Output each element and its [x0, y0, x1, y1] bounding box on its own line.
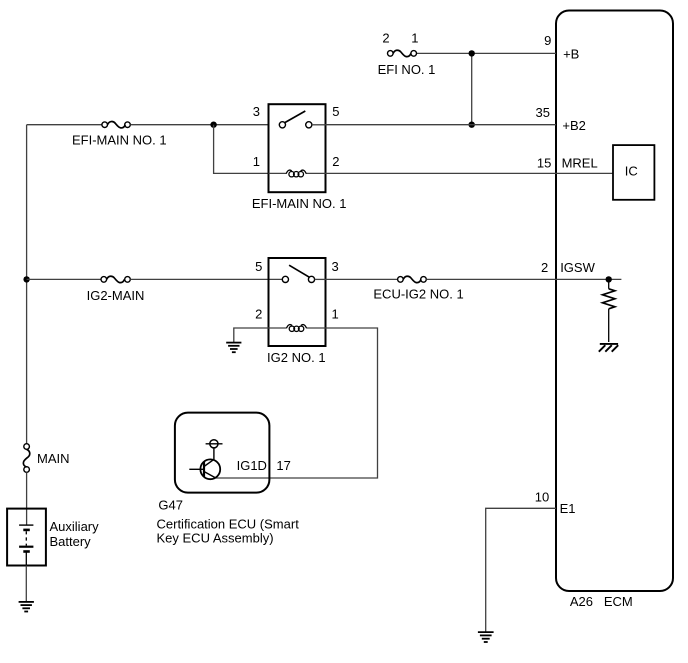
svg-text:+B2: +B2: [562, 118, 586, 133]
wire relay1 pin2 to MREL/IC: [326, 172, 614, 174]
fuse ECU-IG2 NO. 1: [398, 276, 427, 282]
svg-text:E1: E1: [560, 501, 576, 516]
node junction on +B wire: [469, 50, 475, 56]
svg-text:MREL: MREL: [562, 155, 598, 170]
svg-text:IC: IC: [625, 163, 638, 178]
svg-text:Battery: Battery: [50, 534, 92, 549]
svg-text:3: 3: [332, 259, 339, 274]
wire relay2 pin2 to ground: [234, 328, 269, 342]
svg-text:2: 2: [382, 31, 389, 46]
svg-text:35: 35: [536, 105, 550, 120]
svg-text:9: 9: [544, 33, 551, 48]
wire relay2 pin3 to fuse ECU-IG2: [326, 278, 398, 280]
svg-text:IG2-MAIN: IG2-MAIN: [87, 288, 145, 303]
svg-text:1: 1: [411, 31, 418, 46]
svg-text:17: 17: [276, 458, 290, 473]
wire relay2 pin1 to G47 pin 17: [216, 328, 378, 478]
svg-text:G47: G47: [158, 498, 183, 513]
transistor Q (in G47): [189, 440, 222, 480]
wire +B horizontal: [417, 52, 556, 54]
wire left bus vertical: [26, 125, 28, 444]
wire E1 to ground: [486, 508, 556, 632]
svg-text:1: 1: [253, 154, 260, 169]
svg-text:Auxiliary: Auxiliary: [50, 519, 100, 534]
battery G1 Auxiliary Battery box: [7, 509, 46, 566]
fuse EFI-MAIN NO. 1: [102, 122, 130, 128]
svg-text:A26 ECM: A26 ECM: [570, 594, 633, 609]
svg-text:5: 5: [255, 259, 262, 274]
svg-text:EFI NO. 1: EFI NO. 1: [378, 62, 436, 77]
svg-text:Certification ECU (Smart: Certification ECU (Smart: [157, 516, 300, 531]
wire fuse IG2-MAIN to relay2 pin5: [130, 278, 282, 280]
svg-text:5: 5: [332, 104, 339, 119]
wire fuse to relay pin 3: [130, 124, 268, 126]
wire IG2-MAIN line left: [27, 278, 101, 280]
ground (chassis) below resistor: [599, 344, 618, 352]
svg-text:2: 2: [255, 306, 262, 321]
node junction dot on pin3 wire: [210, 122, 216, 128]
svg-text:IG1D: IG1D: [237, 458, 267, 473]
wire EFI-MAIN NO.1 fuse line left: [27, 124, 102, 126]
ECM U-A26 box: [556, 11, 673, 592]
fuse EFI NO. 1: [388, 50, 417, 56]
wire IGSW internal stub: [556, 278, 621, 280]
node junction on left bus (IG2-MAIN): [23, 276, 29, 282]
wire junction vertical +B/+B2: [471, 53, 473, 124]
svg-text:3: 3: [253, 104, 260, 119]
svg-text:15: 15: [537, 155, 551, 170]
svg-text:EFI-MAIN NO. 1: EFI-MAIN NO. 1: [252, 196, 347, 211]
wire fuse ECU-IG2 to IGSW: [426, 278, 556, 280]
svg-text:10: 10: [535, 490, 549, 505]
IC box U1: [613, 145, 654, 200]
ground (earth) at E1: [478, 632, 494, 642]
ground (earth) below battery: [19, 602, 34, 612]
fuse IG2-MAIN: [101, 276, 130, 282]
svg-text:2: 2: [541, 260, 548, 275]
wire branch down to relay coil pin 1: [214, 125, 269, 174]
fusible link MAIN: [23, 444, 29, 473]
wire MAIN link to battery: [26, 472, 28, 525]
svg-text:MAIN: MAIN: [37, 451, 70, 466]
wire battery to ground: [25, 566, 27, 602]
svg-text:Key ECU Assembly): Key ECU Assembly): [157, 531, 274, 546]
node junction on IGSW stub: [606, 276, 612, 282]
svg-text:ECU-IG2 NO. 1: ECU-IG2 NO. 1: [373, 287, 463, 302]
svg-text:1: 1: [332, 306, 339, 321]
svg-text:IGSW: IGSW: [560, 260, 595, 275]
wire relay1 pin5 to +B2: [326, 124, 557, 126]
relay IG2 NO. 1: [269, 258, 326, 346]
svg-text:2: 2: [332, 154, 339, 169]
node junction on +B2 wire: [469, 122, 475, 128]
battery cell symbol: [19, 525, 33, 565]
svg-text:EFI-MAIN NO. 1: EFI-MAIN NO. 1: [72, 133, 167, 148]
svg-text:IG2 NO. 1: IG2 NO. 1: [267, 350, 326, 365]
resistor R (pull-down): [602, 279, 615, 342]
G47 Certification ECU box: [175, 413, 270, 493]
svg-text:+B: +B: [563, 47, 579, 62]
relay EFI-MAIN NO. 1: [269, 104, 326, 192]
ground (earth) at relay2 pin 2: [226, 343, 241, 353]
